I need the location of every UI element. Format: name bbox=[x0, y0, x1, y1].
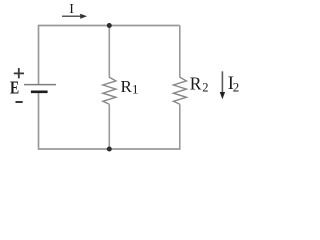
current arrow I bbox=[62, 14, 87, 19]
wire R1 branch upper bbox=[108, 26, 110, 78]
battery E negative plate bbox=[31, 90, 48, 93]
wire left upper bbox=[38, 25, 40, 85]
resistor R1 bbox=[103, 77, 116, 104]
node junction bottom bbox=[107, 147, 112, 152]
label minus bbox=[16, 101, 23, 103]
svg-text:I: I bbox=[69, 2, 74, 17]
current arrow I2 bbox=[220, 71, 225, 99]
wire R2 branch upper bbox=[179, 26, 181, 78]
svg-text:1: 1 bbox=[132, 82, 139, 97]
wire bottom bbox=[39, 148, 180, 150]
wire R1 branch lower bbox=[108, 104, 110, 149]
svg-text:R: R bbox=[121, 77, 133, 96]
wire left lower bbox=[38, 92, 40, 150]
svg-text:R: R bbox=[190, 73, 202, 93]
battery E positive plate bbox=[24, 84, 56, 86]
svg-text:E: E bbox=[10, 78, 19, 98]
label plus bbox=[14, 68, 24, 78]
label I2 bbox=[228, 74, 239, 95]
label R1 bbox=[121, 77, 139, 97]
resistor R2 bbox=[173, 77, 186, 104]
wire R2 branch lower bbox=[179, 104, 181, 150]
svg-text:2: 2 bbox=[202, 81, 208, 95]
node junction top bbox=[107, 23, 112, 28]
wire top bbox=[39, 25, 180, 27]
svg-text:2: 2 bbox=[233, 80, 240, 95]
label R2 bbox=[190, 73, 209, 94]
